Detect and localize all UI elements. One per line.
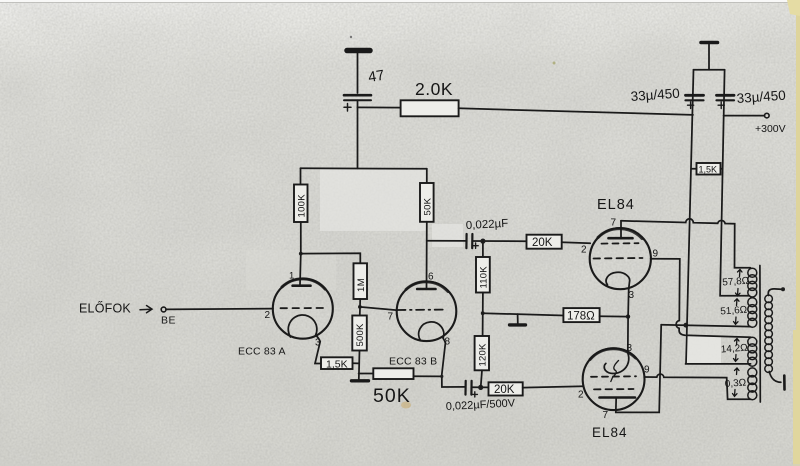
svg-text:0,3Ω: 0,3Ω xyxy=(724,377,747,390)
anode plate ECC83A xyxy=(293,284,311,287)
grid dash-dot ECC83B xyxy=(398,309,446,311)
svg-text:6: 6 xyxy=(428,272,434,283)
svg-text:2.0K: 2.0K xyxy=(415,79,453,99)
wire xyxy=(301,253,361,263)
wire xyxy=(523,386,584,387)
faint top edge line xyxy=(0,2,800,4)
resistor 120K xyxy=(475,336,489,370)
capacitor 47 xyxy=(344,94,371,97)
wire to pin7 ECC83B xyxy=(360,307,398,310)
wire xyxy=(358,351,361,380)
svg-text:2: 2 xyxy=(265,310,271,321)
resistor 178ohm xyxy=(563,308,599,322)
capacitor 33u/450 right xyxy=(717,94,735,97)
cathode ECC83B xyxy=(419,322,446,343)
svg-text:51,6Ω: 51,6Ω xyxy=(720,305,748,318)
wire xyxy=(600,315,628,317)
scan light patch near transformer xyxy=(685,336,721,363)
transformer secondary xyxy=(765,295,773,303)
antenna terminal xyxy=(708,45,710,70)
grid1 dashes EL84 top xyxy=(602,242,639,244)
wire xyxy=(359,299,361,316)
wire xyxy=(472,386,489,388)
transformer primary S3 xyxy=(748,337,757,346)
arrow up S3 xyxy=(735,339,740,346)
anode plate ECC83B xyxy=(417,288,435,291)
wire xyxy=(299,222,302,285)
wire xyxy=(357,53,359,93)
svg-text:+300V: +300V xyxy=(755,123,786,135)
resistor 20K lower xyxy=(489,382,523,395)
svg-text:178Ω: 178Ω xyxy=(567,311,595,323)
tube ECC83B envelope xyxy=(397,282,457,342)
top bar xyxy=(694,69,725,71)
svg-text:0,022µF: 0,022µF xyxy=(466,218,509,232)
wire anode top EL84 to transformer with hops xyxy=(621,219,751,268)
secondary top terminal xyxy=(768,289,781,296)
svg-text:2: 2 xyxy=(578,390,584,401)
wire xyxy=(481,370,482,387)
wire xyxy=(459,108,693,115)
transformer core line xyxy=(759,266,761,403)
arrow down S2 xyxy=(734,317,739,324)
node xyxy=(478,385,483,390)
node xyxy=(299,252,303,256)
svg-text:50K: 50K xyxy=(423,197,434,215)
svg-text:ELŐFOK: ELŐFOK xyxy=(79,301,131,316)
svg-text:7: 7 xyxy=(388,312,394,323)
resistor 2.0K xyxy=(401,100,459,116)
resistor 20K upper xyxy=(527,235,562,249)
wire xyxy=(300,168,302,184)
wire xyxy=(426,222,428,289)
wire bottom node to S2 xyxy=(661,325,750,327)
svg-text:9: 9 xyxy=(644,365,650,376)
svg-text:20K: 20K xyxy=(494,384,515,396)
svg-text:7: 7 xyxy=(611,218,617,229)
scan light patch near coupling cap xyxy=(432,224,463,247)
node xyxy=(481,311,485,315)
svg-text:3: 3 xyxy=(629,290,635,301)
svg-text:57,8Ω: 57,8Ω xyxy=(722,276,750,289)
tan stain near 50K xyxy=(401,402,411,409)
svg-text:8: 8 xyxy=(445,337,451,348)
cathode ECC83A xyxy=(288,315,320,342)
svg-text:3: 3 xyxy=(315,338,321,349)
arrow down S1 xyxy=(736,289,741,296)
svg-text:1,5K: 1,5K xyxy=(699,165,718,175)
svg-text:ECC 83 A: ECC 83 A xyxy=(238,346,286,358)
arrow up S2 xyxy=(735,299,740,306)
wire xyxy=(414,375,442,377)
svg-text:50K: 50K xyxy=(373,385,411,407)
resistor 1,5K xyxy=(321,357,353,369)
svg-text:500K: 500K xyxy=(355,323,366,346)
wire pin2 EL84 top xyxy=(562,242,591,243)
resistor 50K vertical xyxy=(420,183,434,222)
cathode EL84 top xyxy=(606,272,630,289)
grid2 dashes EL84 top xyxy=(594,257,643,260)
svg-text:20K: 20K xyxy=(532,237,553,249)
wire xyxy=(358,106,401,108)
grid1 dashes EL84 bottom xyxy=(591,375,636,378)
wire xyxy=(359,373,374,375)
tiny speck xyxy=(350,36,352,38)
svg-text:110K: 110K xyxy=(479,266,490,289)
svg-text:1M: 1M xyxy=(356,278,367,292)
ground stub xyxy=(517,314,519,324)
tube EL84 top envelope xyxy=(590,228,651,289)
wire pin3 xyxy=(315,342,321,364)
node xyxy=(683,323,688,328)
svg-text:1: 1 xyxy=(289,271,294,282)
node xyxy=(358,305,362,309)
secondary bottom terminal xyxy=(769,372,781,383)
terminal +300V xyxy=(765,113,770,118)
svg-text:BE: BE xyxy=(161,315,176,327)
left rail xyxy=(685,70,751,364)
wire pin9 top EL84 with hop xyxy=(651,259,751,338)
svg-text:47: 47 xyxy=(367,68,385,86)
ground xyxy=(352,379,369,382)
wire cathodes join xyxy=(627,289,630,353)
grid2 dashes EL84 bottom xyxy=(594,388,634,390)
tube ECC83A envelope xyxy=(273,279,333,339)
chassis can terminal bar xyxy=(347,48,370,54)
arrow up S1 xyxy=(738,270,743,277)
transformer primary S1 xyxy=(748,268,757,277)
wire xyxy=(353,362,359,364)
svg-text:ECC 83 B: ECC 83 B xyxy=(389,356,437,368)
svg-text:1,5K: 1,5K xyxy=(326,359,348,371)
grid dashes ECC83A xyxy=(281,307,325,309)
capacitor 33u/450 left xyxy=(686,94,704,97)
node xyxy=(626,314,630,318)
cathode EL84 bottom xyxy=(604,353,629,374)
arrow down S3 xyxy=(734,355,739,362)
right rail xyxy=(720,70,749,296)
wire pin9 bottom EL84 with hop xyxy=(644,374,751,399)
wire xyxy=(482,241,484,257)
svg-text:100K: 100K xyxy=(297,194,308,218)
svg-text:7: 7 xyxy=(603,410,609,421)
wire +300V xyxy=(724,115,765,117)
svg-text:14,2Ω: 14,2Ω xyxy=(720,343,748,356)
resistor 1,5K dropper xyxy=(697,163,721,175)
resistor 100K xyxy=(294,185,308,223)
wire anode bottom to rail xyxy=(616,325,661,413)
capacitor 0,022uF upper xyxy=(466,234,472,248)
svg-text:3: 3 xyxy=(627,343,633,354)
wire to 178 xyxy=(483,313,564,315)
wire xyxy=(472,240,526,242)
terminal BE xyxy=(161,307,166,312)
anode plate EL84 bottom xyxy=(600,396,636,399)
svg-text:2: 2 xyxy=(581,245,587,256)
wire xyxy=(426,169,428,183)
capacitor 0,022uF/500V xyxy=(466,381,472,395)
anode plate EL84 top xyxy=(609,237,633,240)
anode lead xyxy=(620,221,622,238)
bottom edge shadow xyxy=(0,464,800,466)
scan light patch center-left xyxy=(320,169,427,231)
wire pin8 down xyxy=(442,343,465,387)
arrow down S4 xyxy=(733,390,738,397)
node xyxy=(480,239,485,244)
svg-text:EL84: EL84 xyxy=(592,425,628,440)
ground xyxy=(510,323,526,326)
svg-text:EL84: EL84 xyxy=(597,197,635,213)
resistor 500K xyxy=(352,316,367,351)
resistor 50K horizontal xyxy=(373,368,413,379)
tube EL84 bottom envelope xyxy=(583,348,645,410)
node xyxy=(440,375,443,378)
yellow page edge right xyxy=(796,0,800,466)
wire rail xyxy=(301,167,427,170)
wire xyxy=(166,308,273,311)
arrow xyxy=(140,306,152,313)
svg-text:9: 9 xyxy=(653,249,659,260)
wire xyxy=(427,240,466,242)
wire xyxy=(482,293,484,337)
wire xyxy=(357,100,359,168)
transformer primary S2 xyxy=(748,298,757,307)
arrow up S4 xyxy=(735,368,740,375)
resistor 1M xyxy=(354,263,368,299)
resistor 110K xyxy=(476,257,490,293)
svg-text:120K: 120K xyxy=(478,343,489,366)
squiggle xyxy=(611,361,619,382)
transformer primary S4 xyxy=(748,368,757,377)
